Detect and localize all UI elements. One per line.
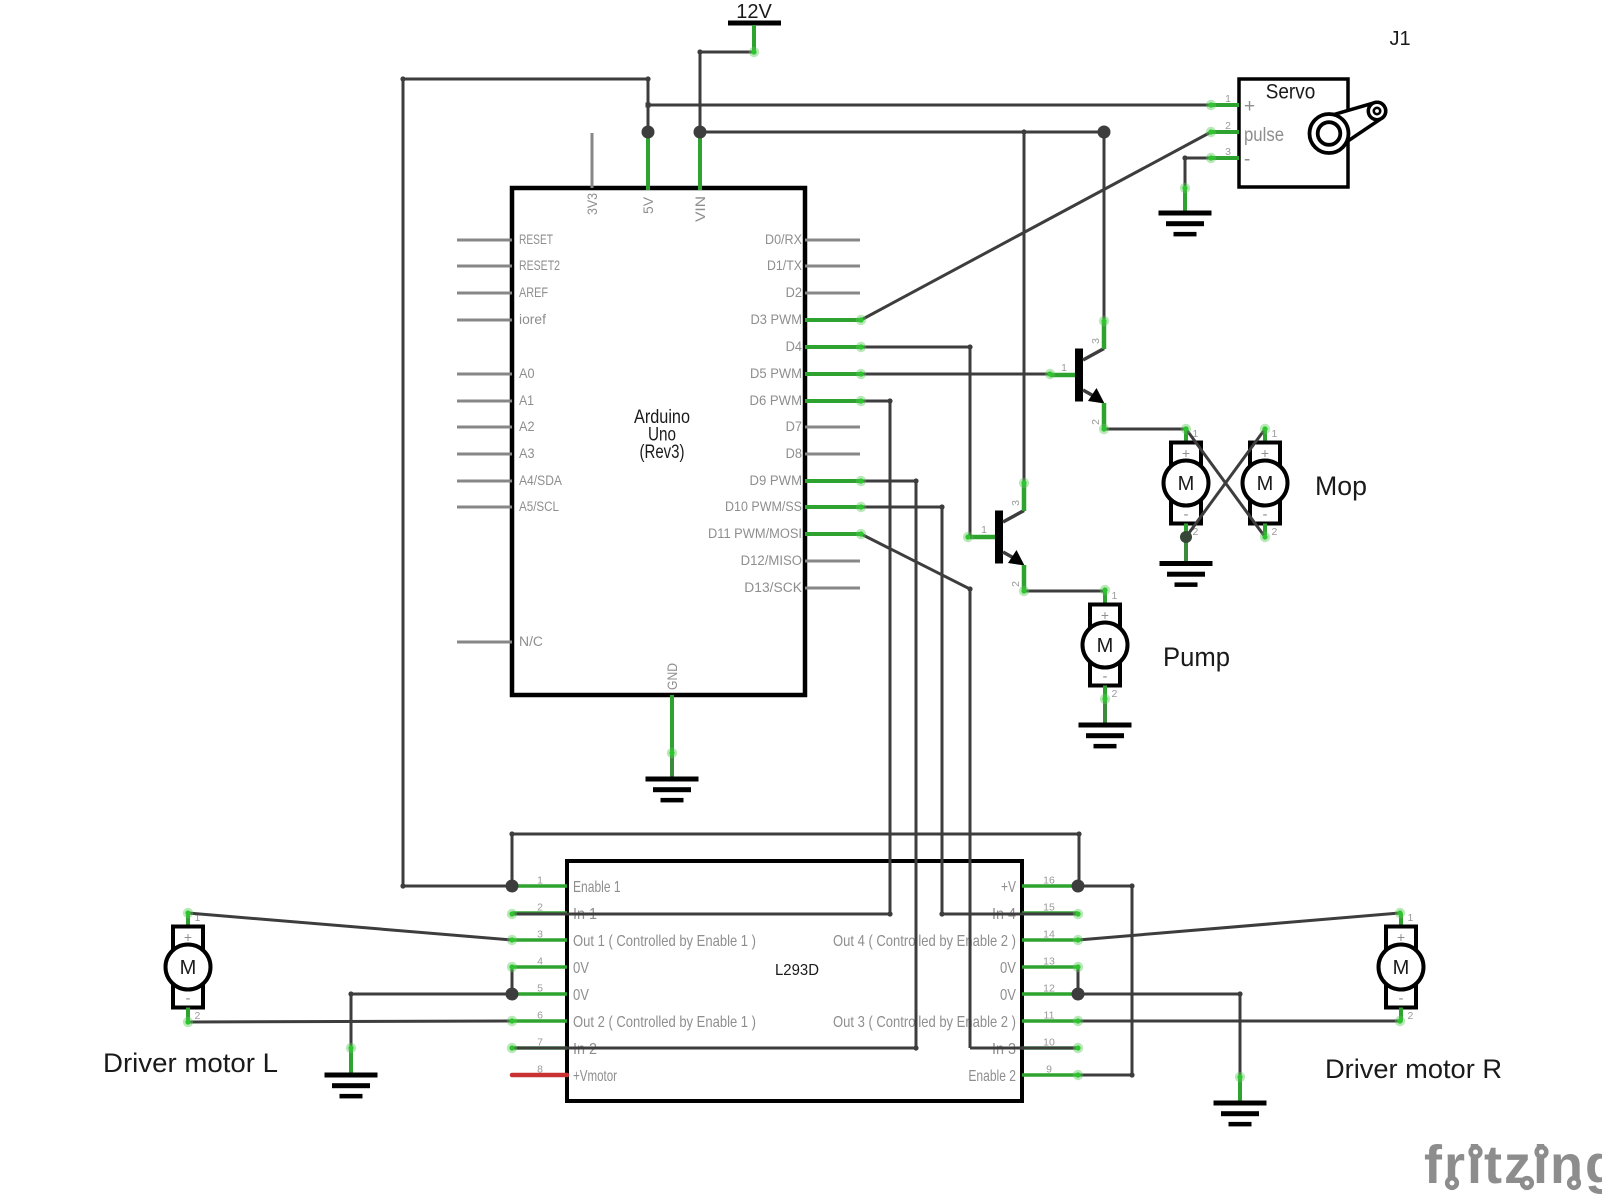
svg-text:9: 9 bbox=[1046, 1064, 1052, 1076]
wire Out 3 to Driver motor R pin 2 bbox=[1078, 1020, 1400, 1023]
svg-text:-: - bbox=[1399, 990, 1404, 1007]
pin D9 PWM bbox=[805, 479, 861, 483]
svg-text:N/C: N/C bbox=[519, 634, 543, 649]
servo pin 3 minus bbox=[1211, 156, 1239, 160]
pin A4/SDA bbox=[457, 480, 512, 483]
L293D pin 4 0V bbox=[512, 965, 567, 969]
IC U1 Arduino Uno (Rev3) bbox=[457, 132, 861, 753]
svg-text:1: 1 bbox=[1061, 362, 1067, 374]
wire L293D In 4 horizontal bbox=[942, 913, 1078, 916]
svg-text:D10 PWM/SS: D10 PWM/SS bbox=[725, 499, 802, 514]
svg-text:J1: J1 bbox=[1389, 28, 1410, 50]
svg-text:Out 2 ( Controlled by Enable 1: Out 2 ( Controlled by Enable 1 ) bbox=[573, 1014, 756, 1031]
svg-text:+: + bbox=[1244, 96, 1255, 117]
svg-text:3: 3 bbox=[1090, 338, 1102, 344]
junction 0V left node bbox=[506, 988, 519, 1001]
svg-text:M: M bbox=[180, 957, 197, 979]
wire bendpoints bbox=[348, 49, 1242, 1077]
svg-text:AREF: AREF bbox=[519, 285, 548, 300]
pin A3 bbox=[457, 453, 512, 456]
svg-text:RESET: RESET bbox=[519, 232, 553, 247]
wire 0V pin13 to 0V pin12 bbox=[1077, 967, 1080, 994]
svg-text:Mop: Mop bbox=[1315, 471, 1367, 501]
svg-text:M: M bbox=[1097, 635, 1114, 657]
svg-text:D8: D8 bbox=[786, 446, 802, 461]
svg-text:A0: A0 bbox=[519, 366, 535, 381]
fritzing watermark bbox=[1424, 1135, 1602, 1195]
wire 12V supply to VIN node bbox=[700, 52, 754, 132]
ground right 0V bbox=[1238, 1077, 1242, 1103]
svg-text:D0/RX: D0/RX bbox=[765, 232, 802, 247]
svg-text:pulse: pulse bbox=[1244, 125, 1284, 146]
svg-text:15: 15 bbox=[1043, 902, 1055, 914]
pin D3 PWM bbox=[805, 318, 861, 322]
svg-text:M: M bbox=[1393, 957, 1410, 979]
svg-text:-: - bbox=[1263, 506, 1268, 523]
servo horn icon bbox=[1322, 102, 1386, 149]
svg-text:Driver motor R: Driver motor R bbox=[1325, 1054, 1502, 1084]
svg-text:2: 2 bbox=[195, 1010, 201, 1022]
L293D pin 12 0V bbox=[1022, 992, 1078, 996]
transistor Q1 mop driver bbox=[1050, 321, 1105, 429]
L293D pin 5 0V bbox=[512, 992, 567, 996]
junction 0V right node bbox=[1072, 988, 1085, 1001]
svg-text:A3: A3 bbox=[519, 446, 535, 461]
svg-text:14: 14 bbox=[1043, 929, 1055, 941]
L293D pin 15 In 4 bbox=[1022, 911, 1078, 915]
ground for mop motor bbox=[1184, 537, 1188, 564]
svg-text:1: 1 bbox=[1225, 93, 1231, 105]
L293D pin 3 Out 1 ( Controlled by Enable 1 ) bbox=[512, 938, 567, 942]
IC U2 L293D bbox=[512, 861, 1078, 1101]
svg-text:13: 13 bbox=[1043, 956, 1055, 968]
svg-text:4: 4 bbox=[537, 956, 543, 968]
svg-text:Driver motor L: Driver motor L bbox=[103, 1048, 278, 1078]
junction VIN node bbox=[694, 126, 707, 139]
L293D pin 7 In 2 bbox=[512, 1046, 567, 1050]
svg-text:+V: +V bbox=[1001, 879, 1016, 896]
servo pin 2 pulse bbox=[1211, 130, 1239, 134]
svg-text:3: 3 bbox=[1225, 146, 1231, 158]
ground below Arduino GND bbox=[670, 753, 674, 779]
svg-text:D4: D4 bbox=[786, 339, 803, 354]
svg-text:GND: GND bbox=[665, 663, 680, 690]
L293D pin 8 +Vmotor bbox=[512, 1073, 567, 1078]
pin ioref bbox=[457, 319, 512, 322]
pin 5V bbox=[646, 132, 650, 190]
svg-text:D12/MISO: D12/MISO bbox=[741, 553, 802, 568]
motor M1 mop left bbox=[1164, 428, 1209, 538]
svg-text:VIN: VIN bbox=[693, 196, 708, 222]
svg-text:-: - bbox=[186, 990, 191, 1007]
svg-text:Enable 1: Enable 1 bbox=[573, 879, 621, 896]
svg-text:2: 2 bbox=[1225, 120, 1231, 132]
svg-text:2: 2 bbox=[1408, 1010, 1414, 1022]
pin AREF bbox=[457, 292, 512, 295]
svg-text:-: - bbox=[1184, 506, 1189, 523]
wire D5 PWM to Q1 base bbox=[861, 373, 1050, 376]
L293D pin 10 In 3 bbox=[1022, 1046, 1078, 1050]
svg-text:5V: 5V bbox=[641, 197, 656, 214]
svg-text:D13/SCK: D13/SCK bbox=[744, 580, 802, 595]
pin D10 PWM/SS bbox=[805, 505, 861, 509]
svg-text:0V: 0V bbox=[1000, 987, 1016, 1004]
pin A2 bbox=[457, 426, 512, 429]
wire D9 PWM to L293D In 2 riser bbox=[861, 481, 916, 1048]
svg-text:M: M bbox=[1178, 473, 1195, 495]
ground for pump motor bbox=[1103, 699, 1107, 725]
wire 0V pin12 to right ground bbox=[1078, 994, 1240, 1077]
svg-text:6: 6 bbox=[537, 1010, 543, 1022]
pin D12/MISO bbox=[805, 560, 860, 563]
svg-text:1: 1 bbox=[537, 875, 543, 887]
svg-text:0V: 0V bbox=[573, 987, 589, 1004]
wire Out 1 to Driver motor L pin 1 bbox=[188, 913, 512, 940]
svg-text:M: M bbox=[1257, 473, 1274, 495]
svg-text:D6 PWM: D6 PWM bbox=[750, 393, 803, 408]
wire 5V to L293D Enable 1 bbox=[403, 79, 648, 886]
wire mop cross M1.1 to M2.2 bbox=[1186, 429, 1265, 537]
svg-text:D7: D7 bbox=[786, 419, 802, 434]
motor M2 mop right bbox=[1243, 428, 1288, 538]
L293D pin 13 0V bbox=[1022, 965, 1078, 969]
wire 5V node to Servo plus bbox=[648, 104, 1211, 107]
pin D0/RX bbox=[805, 239, 860, 242]
pin A0 bbox=[457, 373, 512, 376]
wire 0V pin4 to 0V pin5 bbox=[511, 967, 514, 994]
svg-text:+Vmotor: +Vmotor bbox=[573, 1068, 617, 1085]
wire mop cross M2.1 to M1.2 bbox=[1186, 429, 1265, 537]
svg-text:D2: D2 bbox=[786, 285, 802, 300]
pin D6 PWM bbox=[805, 399, 861, 403]
L293D pin 2 In 1 bbox=[512, 911, 567, 915]
svg-text:3: 3 bbox=[537, 929, 543, 941]
ground for servo bbox=[1183, 188, 1187, 213]
pin D13/SCK bbox=[805, 587, 860, 590]
servo pin 1 plus bbox=[1211, 103, 1239, 107]
svg-text:2: 2 bbox=[537, 902, 543, 914]
svg-text:3V3: 3V3 bbox=[585, 193, 600, 215]
motor pump bbox=[1083, 590, 1128, 700]
pin D4 bbox=[805, 345, 861, 349]
svg-text:-: - bbox=[1103, 668, 1108, 685]
L293D pin 9 Enable 2 bbox=[1022, 1073, 1078, 1077]
svg-text:1: 1 bbox=[981, 524, 987, 536]
pin D11 PWM/MOSI bbox=[805, 532, 861, 536]
svg-text:2: 2 bbox=[1112, 688, 1118, 700]
junction Enable 1 node bbox=[506, 880, 519, 893]
wire D6 PWM to L293D In 1 riser bbox=[861, 401, 890, 914]
svg-text:8: 8 bbox=[537, 1064, 543, 1076]
svg-text:D11 PWM/MOSI: D11 PWM/MOSI bbox=[708, 526, 802, 541]
wire Q2 collector riser bbox=[1023, 132, 1026, 483]
svg-text:1: 1 bbox=[1272, 428, 1278, 440]
junction 5V node bbox=[642, 126, 655, 139]
pin D5 PWM bbox=[805, 372, 861, 376]
pin RESET bbox=[457, 239, 512, 242]
pin VIN bbox=[698, 132, 702, 190]
svg-text:0V: 0V bbox=[573, 960, 589, 977]
svg-text:Out 3 ( Controlled by Enable 2: Out 3 ( Controlled by Enable 2 ) bbox=[833, 1014, 1016, 1031]
svg-text:1: 1 bbox=[1408, 912, 1414, 924]
wire Servo minus to ground bbox=[1185, 158, 1211, 188]
pin GND bbox=[670, 695, 674, 753]
svg-text:A4/SDA: A4/SDA bbox=[519, 473, 562, 488]
svg-text:(Rev3): (Rev3) bbox=[640, 442, 685, 463]
wire Q1 emitter to mop motor M1 plus bbox=[1104, 428, 1186, 431]
svg-text:3: 3 bbox=[1010, 500, 1022, 506]
pin D8 bbox=[805, 453, 860, 456]
L293D pin 11 Out 3 ( Controlled by Enable 2 ) bbox=[1022, 1019, 1078, 1023]
wire D3 PWM to Servo pulse bbox=[861, 132, 1211, 320]
pin D7 bbox=[805, 426, 860, 429]
wire Out 2 to Driver motor L pin 2 bbox=[188, 1021, 512, 1022]
svg-text:D5 PWM: D5 PWM bbox=[750, 366, 802, 381]
svg-text:In 2: In 2 bbox=[573, 1041, 597, 1058]
svg-text:L293D: L293D bbox=[775, 962, 819, 979]
svg-text:12V: 12V bbox=[736, 1, 772, 23]
svg-text:Pump: Pump bbox=[1163, 642, 1230, 672]
wire D4 to Q2 base bbox=[861, 347, 970, 537]
svg-text:D9 PWM: D9 PWM bbox=[750, 473, 803, 488]
svg-text:11: 11 bbox=[1044, 1010, 1055, 1022]
svg-text:Out 1 ( Controlled by Enable 1: Out 1 ( Controlled by Enable 1 ) bbox=[573, 933, 756, 950]
wire D11 PWM/MOSI to L293D In 3 diagonal riser bbox=[861, 534, 970, 1048]
pin D1/TX bbox=[805, 265, 860, 268]
wire L293D In 3 horizontal bbox=[970, 1047, 1078, 1050]
wire Out 4 to Driver motor R pin 1 bbox=[1078, 913, 1400, 940]
L293D pin 1 Enable 1 bbox=[512, 884, 567, 888]
svg-text:Servo: Servo bbox=[1266, 81, 1316, 104]
svg-text:D1/TX: D1/TX bbox=[767, 258, 802, 273]
transistor Q2 pump driver bbox=[970, 483, 1025, 591]
svg-text:A5/SCL: A5/SCL bbox=[519, 499, 559, 514]
pin RESET2 bbox=[457, 265, 512, 268]
motor driver R bbox=[1379, 912, 1424, 1022]
svg-text:2: 2 bbox=[1090, 419, 1102, 425]
wire +V to Enable 2 right link bbox=[1078, 886, 1132, 1075]
svg-text:12: 12 bbox=[1043, 983, 1055, 995]
junction mop M1 pin 2 node bbox=[1180, 531, 1192, 543]
svg-text:16: 16 bbox=[1043, 875, 1055, 887]
svg-text:D3 PWM: D3 PWM bbox=[751, 312, 803, 327]
svg-text:Enable 2: Enable 2 bbox=[968, 1068, 1016, 1085]
wire L293D In 1 horizontal bbox=[512, 913, 890, 916]
svg-text:ioref: ioref bbox=[519, 312, 546, 327]
L293D pin 14 Out 4 ( Controlled by Enable 2 ) bbox=[1022, 938, 1078, 942]
wire D10 PWM/SS to L293D In 4 riser bbox=[861, 507, 942, 914]
svg-text:In 3: In 3 bbox=[992, 1041, 1016, 1058]
ground left 0V bbox=[349, 1048, 353, 1075]
wire VIN junction to Q1 collector drop bbox=[700, 131, 1104, 134]
pin N/C bbox=[457, 641, 512, 644]
wire 0V pin5 to left ground bbox=[351, 994, 512, 1048]
svg-text:0V: 0V bbox=[1000, 960, 1016, 977]
svg-text:5: 5 bbox=[537, 983, 543, 995]
svg-text:A1: A1 bbox=[519, 393, 534, 408]
junction Q1 collector node bbox=[1098, 126, 1111, 139]
svg-text:2: 2 bbox=[1010, 581, 1022, 587]
motor driver L bbox=[166, 912, 211, 1022]
junction +V node bbox=[1072, 880, 1085, 893]
power symbol 12V bbox=[728, 1, 781, 52]
pin A1 bbox=[457, 400, 512, 403]
pin 3V3 bbox=[591, 133, 594, 188]
svg-text:Out 4 ( Controlled by Enable 2: Out 4 ( Controlled by Enable 2 ) bbox=[833, 933, 1016, 950]
connector J1 Servo bbox=[1211, 79, 1386, 187]
wire Q2 emitter to pump plus bbox=[1024, 590, 1105, 593]
svg-text:1: 1 bbox=[1112, 590, 1118, 602]
wire Q1 collector riser bbox=[1103, 132, 1106, 321]
pin D2 bbox=[805, 292, 860, 295]
svg-text:RESET2: RESET2 bbox=[519, 258, 560, 273]
svg-text:-: - bbox=[1244, 149, 1250, 170]
wire endpoint markers bbox=[183, 47, 1405, 1082]
svg-text:A2: A2 bbox=[519, 419, 535, 434]
wire L293D In 2 horizontal bbox=[512, 1047, 916, 1050]
pin A5/SCL bbox=[457, 506, 512, 509]
L293D pin 16 +V bbox=[1022, 884, 1078, 888]
wire Enable 1 to +V top link bbox=[512, 834, 1079, 886]
svg-text:2: 2 bbox=[1272, 526, 1278, 538]
L293D pin 6 Out 2 ( Controlled by Enable 1 ) bbox=[512, 1019, 567, 1023]
